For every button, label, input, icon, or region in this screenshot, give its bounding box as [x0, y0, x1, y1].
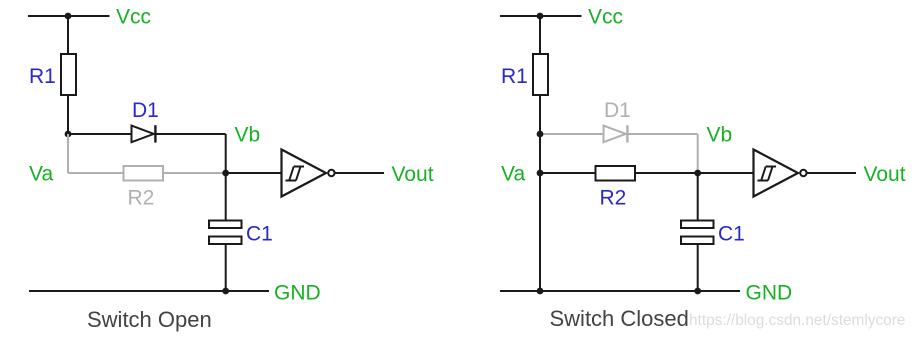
diode D1, inactive gray (right circuit)	[604, 125, 628, 142]
svg-text:GND: GND	[274, 282, 321, 305]
svg-text:R1: R1	[501, 65, 528, 88]
wire: Vcc rail horizontal (right circuit)	[500, 15, 582, 17]
capacitor C1 (right circuit)	[681, 221, 714, 245]
wire: inverter output to Vout (left circuit)	[336, 172, 385, 174]
junction: node Vb / inverter input (left circuit)	[222, 170, 229, 177]
wire: R1 bottom to diode node (right circuit)	[539, 95, 541, 134]
wire: rail diode node to Va node (right circuit)	[539, 134, 541, 173]
wire: node to capacitor C1 (right circuit)	[697, 173, 699, 221]
svg-text:https://blog.csdn.net/stemlyco: https://blog.csdn.net/stemlycore	[689, 312, 905, 329]
wire: node to inverter input (left circuit)	[226, 172, 282, 174]
svg-text:C1: C1	[246, 223, 273, 246]
svg-text:R2: R2	[600, 187, 627, 210]
junction: switch wire to ground (right circuit)	[537, 288, 544, 295]
junction: Vcc node (left circuit)	[65, 13, 72, 20]
wire: diode branch horizontal, inactive gray (right circuit)	[540, 133, 698, 135]
resistor R1 (right circuit)	[533, 54, 548, 95]
wire: C1 to ground rail (left circuit)	[225, 244, 227, 291]
op-amp U1: Schmitt-trigger inverter (left circuit)	[282, 150, 335, 197]
svg-text:Vb: Vb	[707, 124, 733, 147]
wire: C1 to ground rail (right circuit)	[697, 244, 699, 291]
junction: C1 to ground (right circuit)	[694, 288, 701, 295]
junction: node at R1 bottom / anode net (left circuit)	[65, 131, 72, 138]
wire: Vcc to R1 top (right circuit)	[539, 16, 541, 55]
svg-text:Va: Va	[501, 163, 525, 186]
resistor R2 (right circuit)	[596, 166, 636, 181]
svg-text:GND: GND	[746, 282, 793, 305]
wire: R2 branch horizontal, gray (left circuit)	[68, 172, 226, 174]
svg-text:Va: Va	[29, 163, 53, 186]
wire: Vb corner vertical, gray (right circuit)	[697, 134, 699, 173]
resistor R1 (left circuit)	[61, 54, 76, 95]
hysteresis glyph (left circuit)	[286, 167, 305, 181]
ground rail (left circuit)	[29, 290, 269, 292]
wire: Vcc rail horizontal (left circuit)	[28, 15, 110, 17]
junction: C1 to ground (left circuit)	[222, 288, 229, 295]
wire: R2 branch horizontal (right circuit)	[540, 172, 698, 174]
diode D1 (left circuit)	[132, 125, 156, 142]
svg-text:R1: R1	[29, 65, 56, 88]
junction: Va node on rail (right circuit)	[537, 170, 544, 177]
wire: R1 bottom to diode node (left circuit)	[67, 95, 69, 134]
wire: Vb corner vertical (left circuit)	[225, 134, 227, 173]
ground rail (right circuit)	[500, 290, 740, 292]
junction: node Vb / inverter input (right circuit)	[694, 170, 701, 177]
junction: Vcc node (right circuit)	[537, 13, 544, 20]
svg-text:D1: D1	[132, 99, 159, 122]
wire: inverter output to Vout (right circuit)	[808, 172, 857, 174]
wire: closed switch, Va node down to ground (right circuit)	[539, 173, 541, 291]
svg-text:Vcc: Vcc	[116, 6, 151, 29]
inverter output bubble (left circuit)	[328, 170, 334, 176]
svg-text:R2: R2	[128, 187, 155, 210]
hysteresis glyph (right circuit)	[758, 167, 777, 181]
svg-text:Switch Open: Switch Open	[87, 307, 212, 332]
svg-text:Vcc: Vcc	[588, 6, 623, 29]
wire: Vcc to R1 top (left circuit)	[67, 16, 69, 55]
junction: diode node on rail (right circuit)	[537, 131, 544, 138]
wire: diode branch horizontal (left circuit)	[68, 133, 226, 135]
svg-text:C1: C1	[718, 223, 745, 246]
wire: node to inverter input (right circuit)	[698, 172, 754, 174]
wire: node to capacitor C1 (left circuit)	[225, 173, 227, 221]
inverter output bubble (right circuit)	[800, 170, 806, 176]
svg-text:Vout: Vout	[392, 163, 434, 186]
svg-text:Switch Closed: Switch Closed	[550, 306, 689, 331]
resistor R2, inactive gray (left circuit)	[124, 166, 164, 181]
capacitor C1 (left circuit)	[209, 221, 242, 245]
svg-text:D1: D1	[604, 99, 631, 122]
op-amp U2: Schmitt-trigger inverter (right circuit)	[754, 150, 807, 197]
svg-text:Vb: Vb	[235, 124, 261, 147]
svg-text:Vout: Vout	[864, 163, 906, 186]
wire: open-switch branch vertical, gray (left circuit)	[67, 134, 69, 173]
